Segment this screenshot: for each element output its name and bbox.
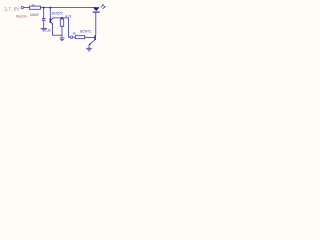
wire T2 to R3 [73,36,76,38]
wire output corner down [69,18,71,37]
LED D1 cathode bar [93,11,100,13]
ground G2 stub [61,35,63,37]
background [0,0,120,63]
transistor Q1 collector lead [49,8,51,19]
svg-text:1k: 1k [72,31,75,35]
wire R3 to Q2 base [85,36,95,38]
emitter down wire Q2 [88,45,90,48]
wire R1 to LED anode (top rail) [41,7,97,9]
node R2 top junction [61,17,63,19]
svg-text:BC547C: BC547C [80,30,91,34]
svg-text:2,7..5V: 2,7..5V [4,7,19,12]
transistor Q1 base bar [49,18,51,23]
terminal T1 (+ supply) [21,6,23,8]
svg-text:BC557C: BC557C [52,12,64,16]
capacitor C1 plates [42,18,46,20]
resistor R2 [60,19,63,26]
wire supply to R1 [24,7,30,9]
capacitor C1 top lead [43,8,45,19]
ground G1 (under C1) [41,27,47,29]
resistor R2 top lead [61,18,63,19]
capacitor C1 bottom lead [43,21,45,28]
bottom U wire [52,34,62,36]
ground G2 (under R2) [59,37,64,39]
ground G3 (under Q2) [86,47,92,49]
LED D1 triangle [93,7,100,11]
svg-text:Red On: Red On [16,15,26,19]
junction node B (transistor tap) [49,7,51,9]
transistor Q2 base bar [94,35,96,40]
emitter down wire [52,24,54,35]
transistor Q1 base diagonal and wire to R2 [51,18,69,20]
resistor R3 [75,36,84,39]
LED D1 light arrows (emitting) [101,5,104,8]
resistor R2 bottom lead [61,26,63,35]
transistor Q1 emitter with arrow [51,22,53,24]
transistor Q2 emitter with arrow [89,40,95,45]
svg-text:100nF: 100nF [30,13,39,17]
junction node A (cap tap) [43,7,45,9]
wire LED cathode to Q2 collector [95,12,97,35]
resistor R1 [30,6,41,9]
terminal T2 (output) [70,36,72,38]
transistor Q2 collector slant [94,34,97,37]
svg-text:2,2k: 2,2k [45,28,51,32]
